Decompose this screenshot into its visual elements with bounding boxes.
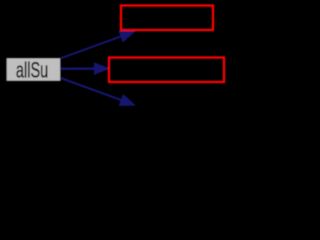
node middle (truncated, red outline): [109, 58, 224, 83]
wire edge allSu -> top node: [61, 36, 121, 58]
node allSu (current node, grey): [6, 58, 61, 83]
arrowhead edge 3: [120, 95, 135, 105]
wire edge allSu -> middle node: [61, 67, 95, 70]
node top (truncated, red outline): [121, 6, 213, 31]
wire edge allSu -> bottom node: [61, 78, 121, 100]
arrowhead edge 1: [119, 31, 134, 41]
arrowhead edge 2: [95, 63, 109, 74]
svg-text:allSu: allSu: [16, 58, 48, 83]
